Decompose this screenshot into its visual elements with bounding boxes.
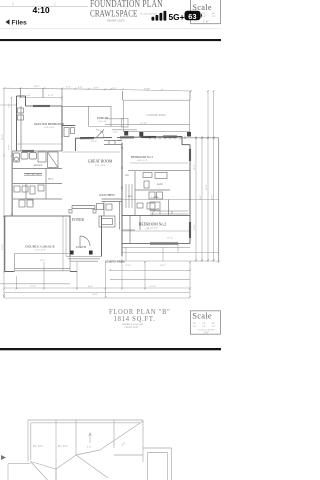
svg-text:Scale: Scale (192, 312, 212, 321)
svg-text:13'-0": 13'-0" (193, 224, 196, 230)
svg-text:1/8": 1/8" (193, 323, 197, 325)
svg-text:31'-8": 31'-8" (1, 134, 4, 140)
svg-text:FOYER: FOYER (72, 218, 84, 222)
svg-text:1'-0": 1'-0" (212, 16, 216, 18)
svg-text:LIN.: LIN. (125, 175, 129, 177)
svg-text:Scale: Scale (192, 3, 212, 12)
svg-text:PORCH: PORCH (76, 245, 86, 249)
svg-text:26'-8": 26'-8" (91, 140, 97, 143)
svg-text:42'-8": 42'-8" (211, 194, 214, 200)
svg-text:COVERED PATIO: COVERED PATIO (146, 114, 166, 117)
svg-text:6:12: 6:12 (63, 445, 68, 448)
svg-text:11'-4": 11'-4" (167, 237, 173, 240)
svg-text:5G+: 5G+ (169, 12, 185, 22)
svg-text:BATH: BATH (157, 183, 163, 186)
svg-text:56'-0": 56'-0" (92, 293, 98, 296)
svg-text:25'-0": 25'-0" (1, 244, 4, 250)
svg-text:1'-0": 1'-0" (202, 326, 206, 328)
svg-text:LAUND.: LAUND. (151, 196, 159, 199)
svg-text:4:10: 4:10 (33, 5, 50, 15)
svg-text:6:12: 6:12 (87, 447, 91, 449)
svg-text:1'-0": 1'-0" (202, 16, 206, 18)
svg-text:16'-0": 16'-0" (40, 259, 46, 262)
svg-text:MASTER BEDROOM: MASTER BEDROOM (34, 122, 64, 126)
svg-text:1'-0": 1'-0" (212, 326, 216, 328)
svg-text:15'-8 x 19'-8: 15'-8 x 19'-8 (95, 165, 105, 167)
svg-text:GREAT ROOM: GREAT ROOM (88, 160, 113, 164)
svg-text:11'-4 x 11'-0: 11'-4 x 11'-0 (147, 228, 157, 230)
svg-text:5'-0": 5'-0" (118, 139, 123, 142)
svg-text:1'-0": 1'-0" (193, 326, 197, 328)
svg-text:CRAWLSPACE: CRAWLSPACE (90, 8, 137, 18)
svg-text:1'-0": 1'-0" (203, 19, 210, 23)
svg-text:5'-8": 5'-8" (8, 103, 11, 108)
svg-text:DOUBLE GARAGE: DOUBLE GARAGE (25, 244, 55, 248)
svg-text:24'-0": 24'-0" (199, 194, 202, 200)
svg-text:8'-0": 8'-0" (94, 86, 99, 89)
svg-text:22'-8": 22'-8" (30, 285, 36, 288)
svg-text:36'-2": 36'-2" (144, 88, 150, 91)
svg-text:23'-4": 23'-4" (150, 285, 156, 288)
svg-text:FRONT LEFT: FRONT LEFT (107, 18, 125, 22)
svg-text:8'-0 x 4'-0: 8'-0 x 4'-0 (98, 121, 106, 123)
svg-text:3/8": 3/8" (212, 13, 216, 15)
svg-text:M.BATH: M.BATH (34, 164, 43, 167)
svg-text:BEDROOM No.3: BEDROOM No.3 (131, 155, 153, 159)
svg-text:BEDROOM No.2: BEDROOM No.2 (139, 222, 167, 226)
svg-text:SCALE NOTED: SCALE NOTED (140, 12, 157, 15)
svg-text:Files: Files (12, 20, 28, 27)
svg-text:1814 SQ.FT.: 1814 SQ.FT. (114, 315, 156, 324)
svg-text:31'-8": 31'-8" (205, 184, 208, 190)
svg-text:1/4": 1/4" (202, 13, 206, 15)
svg-text:6:12: 6:12 (38, 445, 43, 448)
svg-text:10'-8": 10'-8" (160, 264, 166, 267)
svg-text:12'-8": 12'-8" (125, 264, 131, 267)
svg-text:5'-0": 5'-0" (112, 87, 117, 90)
svg-text:26'-0": 26'-0" (34, 85, 40, 88)
svg-text:11'-6 x 13'-0: 11'-6 x 13'-0 (44, 127, 54, 129)
svg-text:11'-0": 11'-0" (193, 164, 196, 170)
svg-text:PORCH: PORCH (97, 116, 108, 120)
svg-text:1/4": 1/4" (202, 323, 206, 325)
svg-text:10'-0 x 11'-0: 10'-0 x 11'-0 (137, 160, 147, 162)
svg-text:PAN.: PAN. (128, 195, 133, 198)
svg-text:FRONT LEFT: FRONT LEFT (125, 326, 140, 329)
svg-text:4'-8": 4'-8" (78, 86, 83, 89)
svg-text:8'-0": 8'-0" (88, 285, 93, 288)
svg-text:3/8": 3/8" (212, 323, 216, 325)
svg-text:5'-4": 5'-4" (66, 86, 71, 89)
svg-text:3'-8": 3'-8" (113, 131, 118, 134)
svg-text:DINING AREA: DINING AREA (105, 259, 126, 263)
svg-text:21'-4 x 23'-8: 21'-4 x 23'-8 (35, 250, 45, 252)
svg-text:5'-8": 5'-8" (26, 94, 31, 97)
svg-text:KITCHEN: KITCHEN (99, 193, 115, 197)
svg-text:W.I.C.: W.I.C. (48, 179, 54, 181)
svg-text:63: 63 (188, 12, 196, 21)
svg-text:13'-0": 13'-0" (8, 144, 11, 150)
svg-text:21'-0": 21'-0" (48, 94, 54, 97)
svg-text:1'-0": 1'-0" (204, 331, 211, 335)
